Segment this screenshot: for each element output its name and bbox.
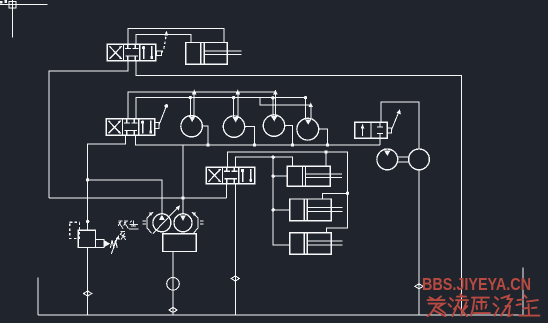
junction square cylinder C1 top port (324, 150, 327, 153)
tank right wall (522, 268, 524, 315)
wire: branch to cylinder C2 top port (323, 193, 348, 199)
motor M2 circle (223, 116, 244, 137)
motor M2 inflow arrowhead (233, 117, 239, 122)
rail R1 junction arrowheads (192, 90, 313, 108)
motor M4 circle (297, 118, 319, 140)
wire: valve V2 port A up to supply rail R1 (128, 92, 276, 119)
wire: valve V3 port B to line y157.2 feeding cylinder C1 cap (236, 157, 293, 167)
motor M1 circle (181, 116, 202, 137)
relief valve adjust arrow (111, 238, 117, 255)
pump PB circle (409, 149, 430, 170)
relief valve outlet box (96, 240, 105, 248)
motor M2 feed pair (234, 92, 238, 117)
wire: valve V1 port B to line y34.3 to cylinder C0 left port (136, 34, 191, 44)
valve V4 flow arrow (362, 126, 364, 136)
cylinder C0 body (186, 43, 228, 65)
cylinder C1 body (287, 166, 330, 186)
junction dot right rail C2 branch (346, 192, 349, 195)
motor M1 inflow arrowhead (189, 117, 195, 122)
wire: relief line through valve body down to tank (87, 248, 89, 316)
valve V4 (2/2 directional, right) (355, 122, 387, 138)
wire: pump P1 outlet line (88, 180, 162, 214)
wire: stub to cylinder C2 rod port (273, 209, 290, 211)
svg-text:BBS.JIYEYA.CN: BBS.JIYEYA.CN (422, 274, 531, 294)
wire: valve V2 bottom port to relief line (88, 135, 126, 230)
shaft coupling between PA and PB (398, 157, 409, 162)
coupling diamond on relief tank line (84, 291, 92, 296)
wire: motor M4 outlet stub (319, 129, 328, 145)
tank left wall (37, 278, 39, 315)
wire: motor M1 outlet stub (202, 126, 208, 145)
motor M3 circle (263, 115, 284, 136)
wire: motor M2 outlet stub (245, 127, 255, 145)
valve V4 blocked port symbols (377, 122, 383, 138)
wire: valve V3 tank port down to reservoir with coupling (234, 184, 236, 315)
valve V4 lever connector (387, 128, 391, 133)
motor M3 feed pair (273, 92, 276, 116)
label 双连 (white) (118, 220, 138, 240)
wire: valve V2 port B up to supply rail R2 (136, 98, 305, 119)
cylinder C0 piston (201, 43, 205, 65)
cylinder C2 body (290, 199, 332, 221)
coupling diamond on suction line (169, 307, 177, 312)
relief valve pilot dashed box (70, 222, 80, 238)
wire: valve V1 port A to line y28.5 to cylinder C0 right port (128, 29, 224, 45)
pump P2 inflow arrowhead (180, 215, 186, 220)
tank bottom line (38, 314, 523, 316)
cylinder C0 rod (204, 51, 241, 55)
pump P2 side ticks (200, 221, 204, 224)
wire: long supply line y198 (49, 197, 227, 199)
wire: valve V4 bottom port to return rail (379, 138, 381, 145)
pump PA inflow arrowhead (384, 151, 390, 156)
wire: cylinder C1 top port (325, 152, 327, 166)
relief valve poppet arrowhead (104, 240, 110, 247)
cylinder C1 rod (306, 174, 343, 177)
valve V3 (4/3 directional, middle) (206, 167, 255, 183)
rail R2 junction dots (189, 96, 308, 100)
wire: rail R2 stepped branch to motor M4 (260, 98, 311, 105)
cylinder C1 piston (303, 166, 306, 186)
motor M4 inflow arrowhead (305, 119, 311, 124)
valve V4 lever (391, 112, 398, 130)
wire: suction line to tank (172, 252, 174, 316)
valve V1 pilot connector (157, 51, 162, 55)
pump P2 circle (174, 214, 192, 232)
wire: valve V3 port P from long supply line (225, 184, 227, 198)
crosshair pickbox (9, 2, 16, 8)
junction dot relief inlet (86, 220, 89, 223)
wire: tank rail from valve V1 port A down left side (49, 61, 128, 198)
junction dot pump feed tee (86, 178, 89, 181)
variable displacement arrow through P1 (153, 207, 178, 233)
pump case box (163, 234, 197, 252)
return rail junction squares (206, 143, 328, 146)
pump P1 outflow arrowhead (159, 215, 165, 221)
pump P2 side compensator arc (194, 214, 199, 234)
wire: left cylinder rail (273, 157, 290, 245)
junction dot left cylinder rail tee (272, 156, 275, 159)
junction dot C2 rod port (272, 208, 275, 211)
motor M1 feed pair (190, 92, 194, 117)
wire: pump PB drain to tank with coupling (418, 170, 420, 315)
wire: valve V1 port B bottom to long return line B to tank (136, 61, 462, 315)
cylinder C3 rod (307, 241, 342, 245)
valve V2 lever knob (165, 104, 169, 108)
cylinder C3 body (290, 233, 332, 255)
cylinder C3 piston (304, 233, 307, 255)
screen corner glyph (0, 0, 7, 3)
junction dot C1 rod port (272, 175, 275, 178)
wire: valve V3 port A to cylinder top line y151.8 (228, 152, 348, 233)
motor M4 feed pair (306, 98, 311, 120)
cylinder C2 piston (304, 199, 307, 221)
valve V1 pilot arrowhead (165, 30, 169, 35)
pump P1 circle (variable) (153, 214, 171, 232)
cylinder C2 rod (307, 208, 342, 212)
wire: motor return rail (135, 135, 379, 145)
valve V2 (4/3 directional, second row) (106, 119, 155, 135)
wire: stub to cylinder C1 rod port (273, 175, 287, 177)
motor M3 inflow arrowhead (271, 116, 277, 121)
coupling diamond on V3 tank line (231, 276, 239, 281)
watermark 爱液压论坛 (red, drawn strokes) (428, 294, 540, 316)
crosshair cursor vertical line (11, 0, 13, 38)
valve V1 pilot dashed line (162, 35, 167, 53)
wire: pump P2 riser to return rail (182, 145, 184, 214)
pump P1 side ticks (142, 221, 146, 224)
junction dot pump P2 line (181, 196, 184, 199)
wire: pump frame around valve V4 (381, 102, 419, 149)
valve V4 lever arrowhead (397, 109, 401, 114)
valve V2 lever (159, 107, 166, 126)
valve V1 (4/3 directional, top) (107, 44, 156, 60)
suction strainer circle (167, 278, 180, 291)
pump PA circle (377, 149, 398, 170)
crosshair cursor horizontal line (0, 4, 48, 6)
relief valve body (78, 230, 95, 247)
wire: motor M3 outlet stub (285, 126, 293, 145)
relief valve spring (110, 240, 117, 248)
pump P1 side compensator arc (147, 214, 152, 234)
coupling diamond on PB drain (415, 284, 423, 289)
valve V2 lever connector (155, 123, 159, 129)
